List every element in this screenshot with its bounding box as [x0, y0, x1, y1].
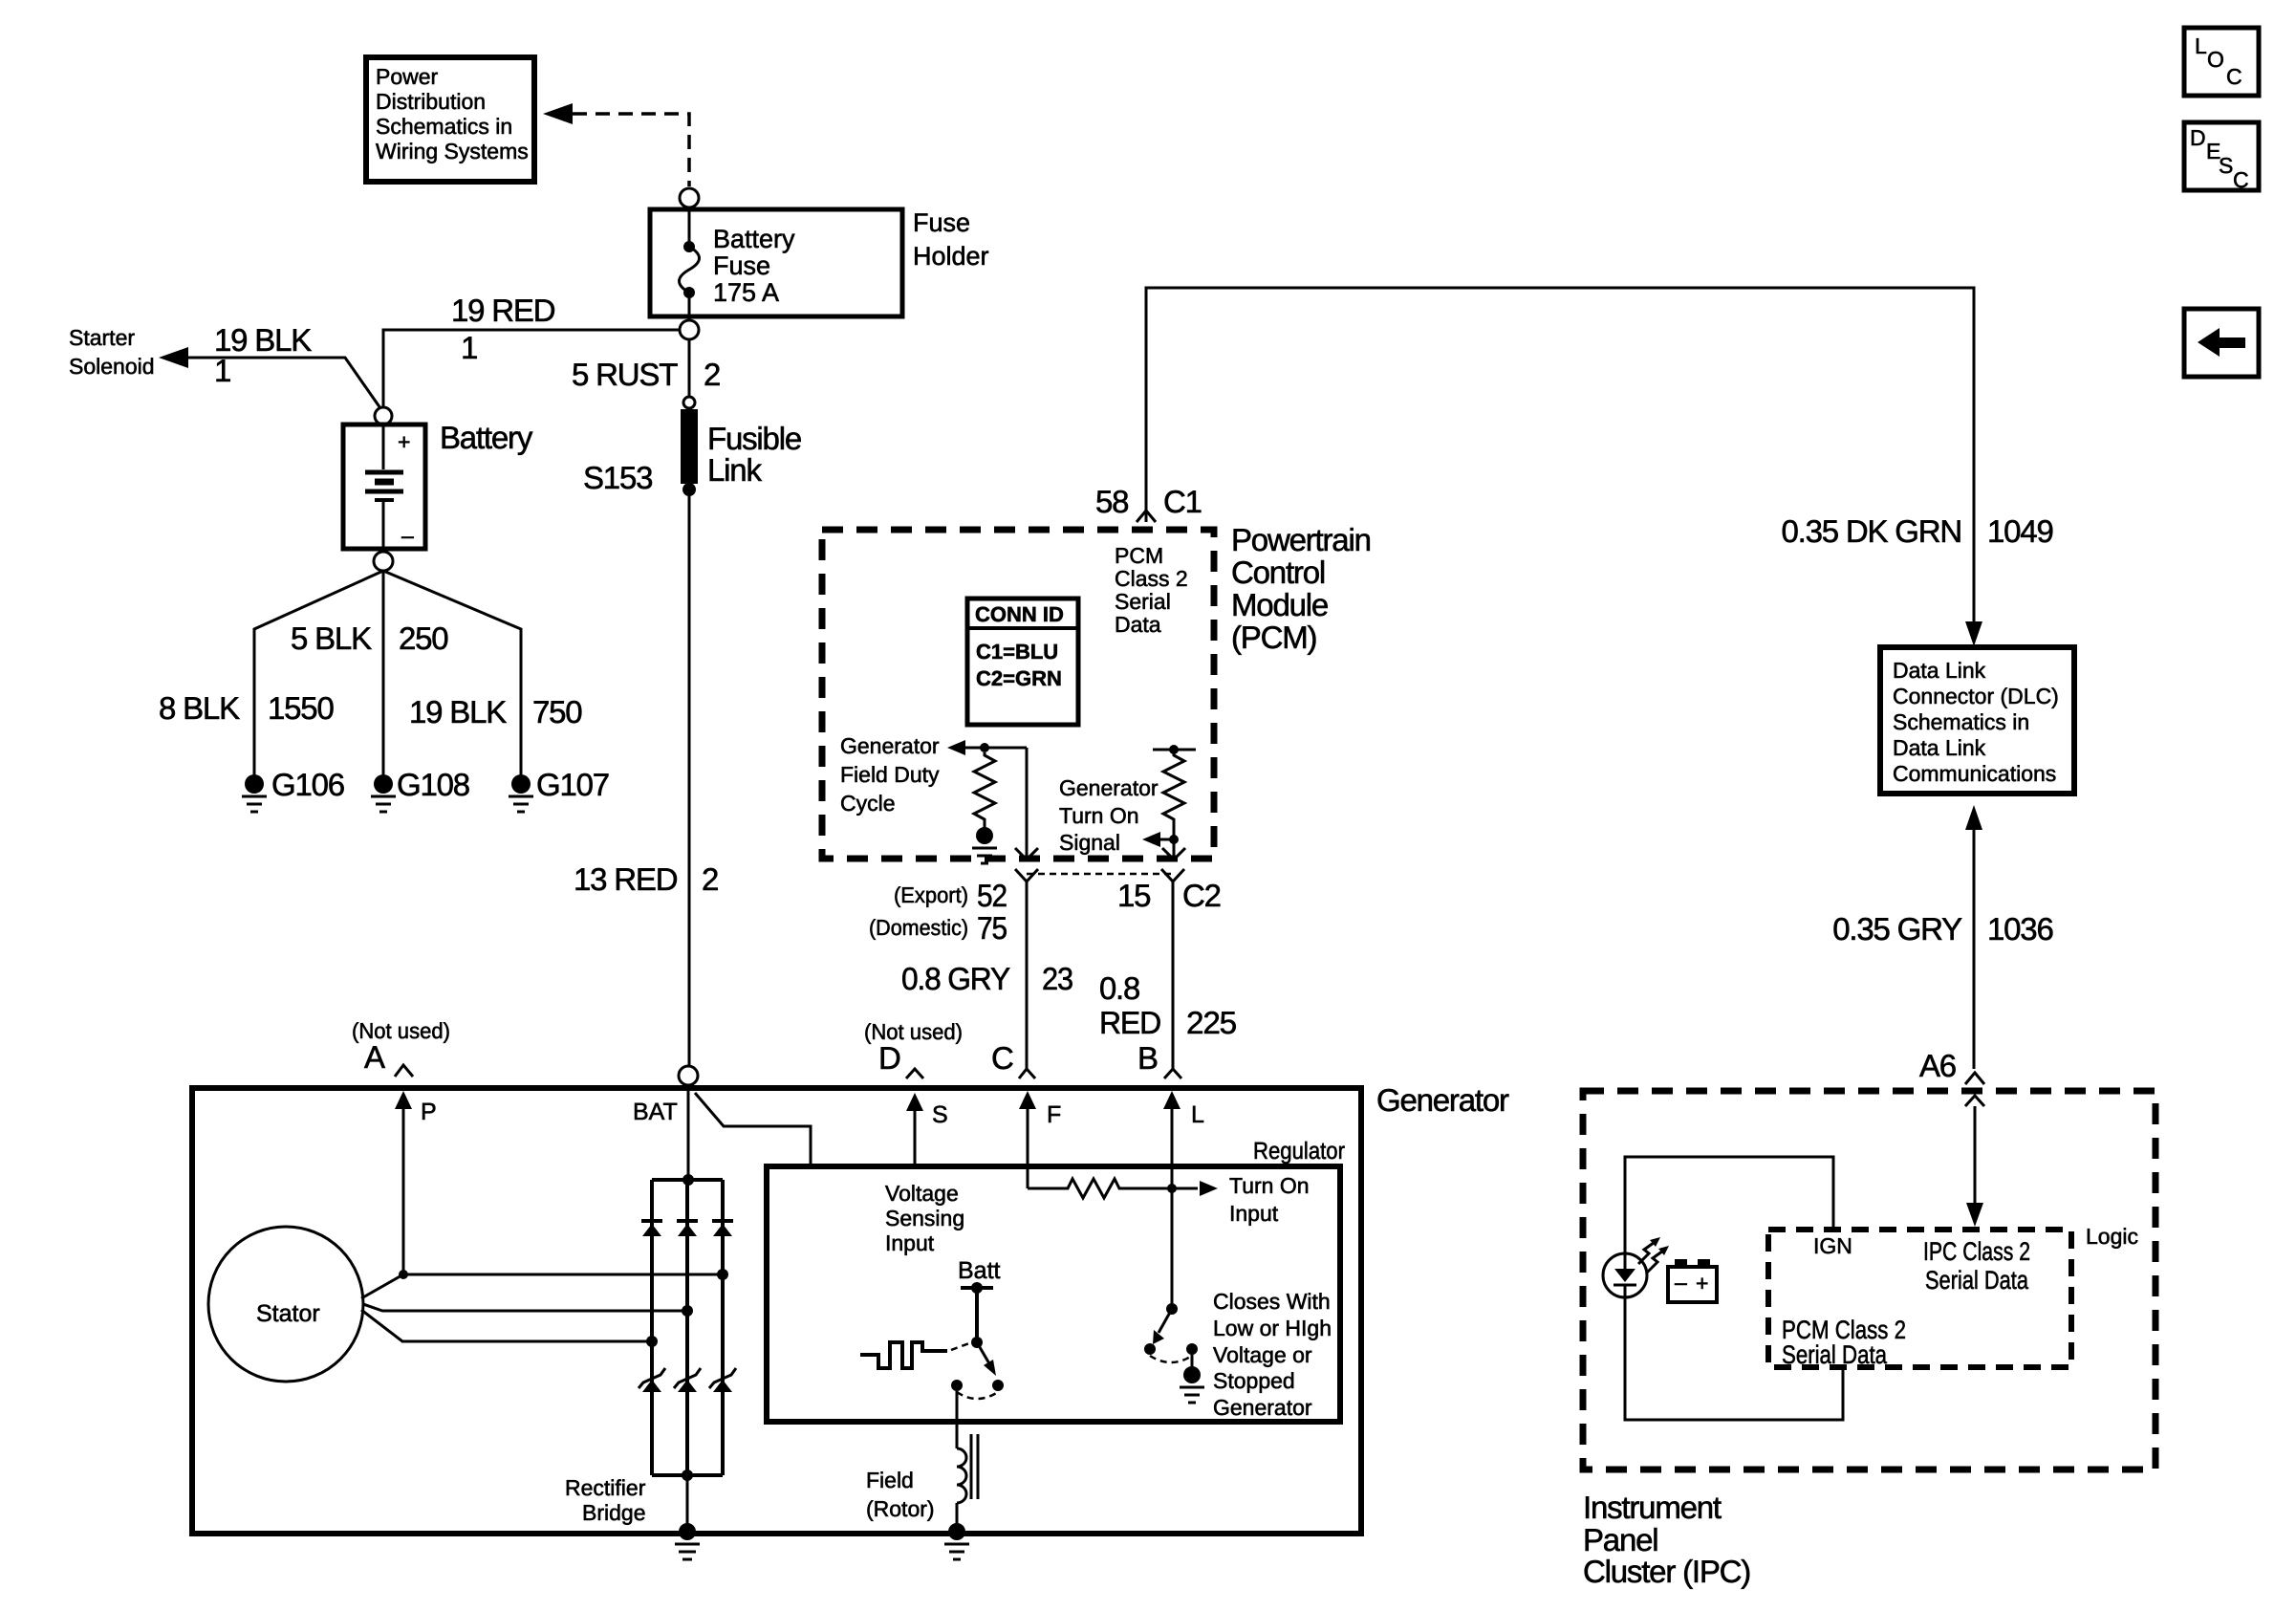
svg-text:Communications: Communications: [1893, 761, 2056, 786]
svg-text:Logic: Logic: [2086, 1224, 2138, 1249]
svg-text:Field: Field: [866, 1468, 914, 1492]
svg-text:Voltage or: Voltage or: [1213, 1342, 1312, 1367]
svg-text:C: C: [991, 1040, 1013, 1076]
svg-text:19 BLK: 19 BLK: [409, 694, 507, 729]
switch: closes with low or high voltage: [1144, 1303, 1204, 1403]
svg-text:13 RED: 13 RED: [574, 861, 678, 897]
svg-text:Signal: Signal: [1059, 830, 1120, 855]
IPC dashed box: [1583, 1091, 2155, 1469]
svg-text:Link: Link: [707, 452, 762, 488]
svg-text:G106: G106: [271, 767, 344, 802]
wire: 0.8 GRY circuit 23: [1026, 882, 1029, 1069]
connector chevron pin D (not used): [906, 1069, 923, 1078]
svg-text:1036: 1036: [1987, 911, 2053, 947]
generator box: [192, 1088, 1361, 1534]
svg-text:1049: 1049: [1987, 513, 2053, 549]
svg-text:0.35 DK GRN: 0.35 DK GRN: [1781, 513, 1961, 549]
switch: battery PWM driver: [951, 1257, 1004, 1399]
svg-text:Serial Data: Serial Data: [1782, 1340, 1888, 1369]
ground at bridge: [675, 1523, 700, 1559]
DESC navigation box: [2184, 122, 2259, 192]
svg-text:C2: C2: [1182, 878, 1221, 913]
svg-text:C: C: [2233, 167, 2249, 192]
svg-text:Generator: Generator: [1376, 1082, 1509, 1118]
wire: BAT into rectifier bridge: [687, 1085, 690, 1180]
svg-text:Fuse: Fuse: [913, 208, 970, 237]
pin L arrow: [1171, 1107, 1174, 1309]
diode upper right: [712, 1221, 733, 1236]
svg-text:A: A: [364, 1039, 385, 1075]
stator phase wire middle: [363, 1304, 687, 1311]
back arrow navigation box: [2184, 309, 2259, 377]
svg-text:Connector (DLC): Connector (DLC): [1893, 684, 2059, 708]
wire: 0.35 GRY 1036 from IPC to DLC: [1965, 805, 1982, 830]
svg-text:C: C: [2226, 64, 2242, 89]
wire: bridge to ground: [686, 1475, 689, 1528]
svg-text:Closes With: Closes With: [1213, 1289, 1331, 1314]
battery icon in IPC: [1668, 1259, 1717, 1302]
wire: IGN feed: [1625, 1157, 1833, 1252]
wire: A6 into logic box: [1965, 1096, 1984, 1106]
svg-text:250: 250: [399, 620, 448, 656]
svg-text:1: 1: [461, 330, 477, 365]
stator phase wire bottom: [361, 1310, 652, 1341]
svg-text:Instrument: Instrument: [1583, 1490, 1722, 1525]
svg-text:Distribution: Distribution: [376, 89, 486, 114]
svg-text:RED: RED: [1099, 1005, 1160, 1040]
pin P arrow: [402, 1105, 405, 1274]
svg-text:Wiring Systems: Wiring Systems: [376, 139, 529, 163]
wire: turn on signal to pin B: [1173, 839, 1176, 859]
ground at field: [944, 1523, 969, 1559]
pin F arrow: [1027, 1107, 1029, 1188]
svg-text:F: F: [1047, 1101, 1061, 1128]
svg-text:5 RUST: 5 RUST: [572, 357, 678, 392]
box: Power Distribution Schematics in Wiring Systems: [366, 57, 534, 182]
svg-text:–: –: [401, 523, 414, 548]
svg-text:Holder: Holder: [913, 242, 989, 271]
wire: generator field duty cycle output to pin C: [1026, 748, 1029, 859]
svg-text:8 BLK: 8 BLK: [159, 690, 240, 726]
avalanche diode lower left: [639, 1368, 665, 1392]
svg-text:Rectifier: Rectifier: [565, 1475, 646, 1500]
svg-text:Data Link: Data Link: [1893, 658, 1986, 683]
svg-text:Battery: Battery: [440, 420, 533, 455]
svg-text:D: D: [2190, 125, 2206, 150]
svg-text:Control: Control: [1231, 555, 1325, 590]
svg-text:L: L: [2195, 33, 2207, 58]
node: BAT terminal circle on generator: [679, 1066, 698, 1085]
svg-text:15: 15: [1117, 878, 1150, 913]
svg-text:BAT: BAT: [633, 1099, 678, 1125]
svg-text:Regulator: Regulator: [1253, 1138, 1345, 1165]
LOC navigation box: [2184, 28, 2259, 96]
stator: [208, 1227, 363, 1382]
wire: 19 BLK circuit 1 to starter solenoid: [188, 358, 380, 408]
svg-text:Powertrain: Powertrain: [1231, 522, 1371, 557]
node: battery negative terminal circle: [374, 552, 393, 571]
wire: 19 BLK 750 to G107: [383, 571, 521, 775]
svg-text:1: 1: [214, 353, 230, 388]
svg-text:S: S: [932, 1101, 948, 1128]
diode upper middle: [677, 1221, 698, 1236]
battery B1: [343, 425, 425, 552]
wire: 0.35 DK GRN 1049 arrow into DLC box: [1965, 621, 1982, 646]
svg-text:2: 2: [704, 357, 720, 392]
svg-text:75: 75: [977, 910, 1007, 946]
stator phase wire top: [361, 1274, 723, 1298]
resistor: turn on input: [1028, 1179, 1198, 1198]
fuse F1: Battery Fuse 175 A: [680, 207, 796, 320]
svg-text:0.8 GRY: 0.8 GRY: [901, 961, 1010, 996]
avalanche diode lower middle: [674, 1368, 701, 1392]
svg-text:C1: C1: [1163, 484, 1202, 519]
svg-text:225: 225: [1186, 1005, 1236, 1040]
pin S arrow: [914, 1107, 917, 1166]
svg-text:Fuse: Fuse: [713, 251, 770, 280]
svg-text:Data: Data: [1115, 612, 1161, 637]
fuse holder box: [650, 209, 902, 316]
svg-text:IPC Class 2: IPC Class 2: [1923, 1237, 2030, 1266]
svg-text:(Domestic): (Domestic): [869, 915, 968, 940]
svg-text:O: O: [2207, 47, 2224, 72]
svg-text:2: 2: [702, 861, 718, 897]
svg-text:Schematics in: Schematics in: [376, 114, 512, 139]
field rotor coil: [866, 1434, 978, 1528]
svg-text:C2=GRN: C2=GRN: [976, 666, 1062, 690]
svg-text:5 BLK: 5 BLK: [291, 620, 372, 656]
svg-text:Cluster (IPC): Cluster (IPC): [1583, 1554, 1750, 1589]
connector chevron at PCM pin 58: [1137, 511, 1156, 522]
PCM dashed box: [822, 530, 1214, 859]
ground G108: [371, 767, 469, 812]
svg-text:Low or HIgh: Low or HIgh: [1213, 1316, 1332, 1340]
fusible link + splice S153: [583, 397, 801, 496]
svg-text:Generator: Generator: [1059, 775, 1159, 800]
rectifier bridge rails: [652, 1174, 723, 1481]
svg-text:P: P: [421, 1099, 437, 1125]
CONN ID table: [967, 599, 1078, 725]
svg-text:Schematics in: Schematics in: [1893, 709, 2029, 734]
svg-text:L: L: [1191, 1101, 1204, 1128]
svg-text:+: +: [1696, 1271, 1708, 1295]
svg-text:0.8: 0.8: [1099, 970, 1139, 1006]
svg-text:–: –: [1675, 1270, 1687, 1295]
svg-text:C1=BLU: C1=BLU: [976, 640, 1058, 664]
LED telltale lamp: [1603, 1237, 1669, 1297]
svg-text:Field Duty: Field Duty: [840, 762, 940, 787]
regulator box: [767, 1166, 1340, 1422]
svg-text:S153: S153: [583, 460, 652, 495]
svg-text:Power: Power: [376, 64, 439, 89]
svg-text:19 RED: 19 RED: [451, 293, 555, 328]
svg-text:Generator: Generator: [840, 733, 940, 758]
wire: field output: [956, 1391, 959, 1448]
svg-text:750: 750: [532, 694, 582, 729]
svg-text:Panel: Panel: [1583, 1522, 1657, 1557]
wire: dashed link from fuse holder to power distribution box: [573, 114, 689, 186]
PWM waveform symbol: [860, 1342, 947, 1368]
svg-text:Input: Input: [885, 1230, 935, 1255]
svg-text:Turn On: Turn On: [1229, 1173, 1310, 1198]
svg-text:Serial Data: Serial Data: [1925, 1266, 2029, 1295]
arrowhead to power distribution box: [543, 103, 573, 124]
svg-text:+: +: [398, 429, 410, 454]
wire: 19 RED circuit 1: [383, 330, 680, 407]
svg-text:Serial: Serial: [1115, 589, 1171, 614]
svg-text:Bridge: Bridge: [582, 1500, 645, 1525]
svg-text:Data Link: Data Link: [1893, 735, 1986, 760]
node: connector circle top of fuse holder: [680, 188, 699, 207]
svg-text:B: B: [1137, 1040, 1158, 1076]
wire: 13 RED circuit 2: [688, 495, 691, 1066]
svg-text:G107: G107: [536, 767, 609, 802]
diode upper left: [641, 1221, 662, 1236]
svg-text:Generator: Generator: [1213, 1395, 1312, 1420]
svg-text:Stator: Stator: [256, 1300, 320, 1327]
avalanche diode lower right: [709, 1368, 736, 1392]
svg-text:58: 58: [1095, 484, 1128, 519]
wire: 5 BLK 250 to G108: [382, 571, 385, 775]
svg-text:(Rotor): (Rotor): [866, 1496, 935, 1521]
node: connector circle bottom of fuse holder: [680, 320, 699, 339]
svg-text:23: 23: [1042, 961, 1072, 996]
svg-text:175 A: 175 A: [713, 278, 779, 307]
resistor: generator field duty cycle driver: [840, 733, 1027, 863]
wire: 5 RUST circuit 2: [688, 339, 691, 398]
logic dashed box: [1768, 1230, 2071, 1367]
ground G107: [509, 767, 609, 812]
svg-text:52: 52: [977, 878, 1007, 913]
svg-text:(Export): (Export): [894, 882, 968, 907]
svg-text:Starter: Starter: [69, 325, 135, 350]
wire: PCM class 2 serial data, pin 58 C1 to DLC: [1146, 288, 1974, 623]
wire: LED to PCM class 2 input: [1625, 1297, 1843, 1420]
svg-text:Cycle: Cycle: [840, 791, 896, 816]
svg-text:PCM: PCM: [1115, 543, 1163, 568]
svg-text:Voltage: Voltage: [885, 1181, 959, 1206]
wire: BAT to regulator: [695, 1093, 811, 1164]
svg-text:S: S: [2219, 153, 2233, 178]
wire: 0.8 RED circuit 225: [1172, 882, 1175, 1069]
svg-text:Battery: Battery: [713, 225, 795, 253]
connector C2 bracket: [1015, 869, 1184, 882]
svg-text:Solenoid: Solenoid: [69, 354, 155, 379]
svg-text:Sensing: Sensing: [885, 1206, 964, 1230]
svg-text:Module: Module: [1231, 587, 1328, 622]
svg-text:D: D: [878, 1040, 900, 1076]
svg-text:Stopped: Stopped: [1213, 1368, 1295, 1393]
svg-text:Input: Input: [1229, 1201, 1279, 1226]
svg-text:A6: A6: [1919, 1048, 1956, 1083]
svg-text:0.35 GRY: 0.35 GRY: [1832, 911, 1962, 947]
connector chevrons at generator pins C and B: [1019, 1069, 1035, 1078]
wire: 8 BLK 1550 to G106: [254, 571, 383, 775]
svg-text:Fusible: Fusible: [707, 421, 801, 456]
svg-text:1550: 1550: [268, 690, 334, 726]
svg-text:Batt: Batt: [958, 1257, 1001, 1284]
svg-text:Turn On: Turn On: [1059, 803, 1139, 828]
svg-text:G108: G108: [397, 767, 469, 802]
svg-text:Class 2: Class 2: [1115, 566, 1188, 591]
resistor: generator turn on signal sense: [1059, 745, 1196, 855]
svg-text:(PCM): (PCM): [1231, 620, 1316, 655]
ground G106: [242, 767, 344, 812]
svg-text:IGN: IGN: [1813, 1233, 1852, 1258]
node: battery positive terminal circle: [375, 407, 392, 425]
box: Data Link Connector (DLC) Schematics in Data Link Communications: [1880, 647, 2074, 794]
svg-text:CONN ID: CONN ID: [975, 602, 1064, 626]
